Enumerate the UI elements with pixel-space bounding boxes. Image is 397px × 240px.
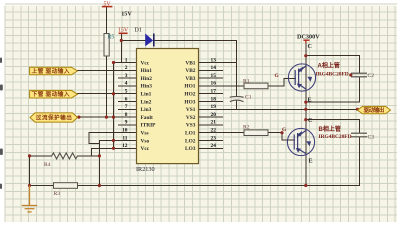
svg-text:D1: D1 <box>135 28 142 34</box>
svg-text:1: 1 <box>125 57 128 63</box>
svg-text:B相上管: B相上管 <box>319 125 341 133</box>
svg-text:23: 23 <box>211 135 217 141</box>
svg-text:IR2130: IR2130 <box>136 166 155 173</box>
svg-text:Vcc: Vcc <box>141 60 150 66</box>
svg-text:Lin1: Lin1 <box>141 92 152 98</box>
svg-text:9: 9 <box>125 120 128 126</box>
svg-text:Hin2: Hin2 <box>141 76 153 82</box>
svg-text:VS3: VS3 <box>186 123 196 129</box>
svg-text:16: 16 <box>211 81 217 87</box>
svg-text:19: 19 <box>211 104 217 110</box>
svg-text:Fault: Fault <box>141 115 153 121</box>
svg-text:驱动输出: 驱动输出 <box>364 106 385 114</box>
svg-text:VS2: VS2 <box>186 115 196 121</box>
svg-text:4: 4 <box>125 81 128 87</box>
svg-text:14: 14 <box>211 65 217 71</box>
svg-text:12: 12 <box>122 143 128 149</box>
svg-text:8: 8 <box>125 112 128 118</box>
svg-text:IRG4BC20FD: IRG4BC20FD <box>316 71 349 77</box>
svg-text:24: 24 <box>211 143 217 149</box>
svg-text:VB1: VB1 <box>185 60 195 66</box>
svg-text:LO1: LO1 <box>185 131 196 137</box>
svg-text:10: 10 <box>122 128 128 134</box>
svg-text:C3: C3 <box>368 135 375 141</box>
svg-text:E: E <box>309 159 313 165</box>
svg-text:2: 2 <box>125 65 128 71</box>
svg-text:LO3: LO3 <box>185 146 196 152</box>
svg-text:Lin2: Lin2 <box>141 99 152 105</box>
svg-text:VB2: VB2 <box>185 68 195 74</box>
svg-text:HO2: HO2 <box>184 92 195 98</box>
svg-text:Vso: Vso <box>141 138 150 144</box>
svg-text:ITRIP: ITRIP <box>141 123 157 129</box>
svg-text:15V: 15V <box>121 11 132 18</box>
svg-text:Hin1: Hin1 <box>141 68 153 74</box>
svg-text:5: 5 <box>125 89 128 95</box>
svg-text:18: 18 <box>211 96 217 102</box>
svg-text:C: C <box>308 118 312 124</box>
svg-text:17: 17 <box>211 89 217 95</box>
svg-text:20: 20 <box>211 112 217 118</box>
svg-text:6: 6 <box>125 96 128 102</box>
svg-text:C1: C1 <box>245 95 252 101</box>
svg-text:R3: R3 <box>54 191 61 197</box>
svg-text:IRG4BC20FD: IRG4BC20FD <box>319 134 352 140</box>
svg-text:上管 驱动输入: 上管 驱动输入 <box>32 67 70 75</box>
svg-text:Lin3: Lin3 <box>141 107 152 113</box>
svg-text:LO2: LO2 <box>185 138 196 144</box>
svg-text:7: 7 <box>125 104 128 110</box>
svg-text:Vss: Vss <box>141 131 149 137</box>
svg-text:VS1: VS1 <box>186 107 196 113</box>
svg-text:11: 11 <box>122 135 127 141</box>
svg-text:下管 驱动输入: 下管 驱动输入 <box>32 90 70 98</box>
svg-text:R5: R5 <box>108 34 115 40</box>
svg-text:Vcc: Vcc <box>141 146 150 152</box>
svg-text:HO3: HO3 <box>184 99 195 105</box>
svg-text:HO1: HO1 <box>184 84 195 90</box>
svg-text:13: 13 <box>211 57 217 63</box>
svg-text:C: C <box>308 44 312 50</box>
svg-text:R2: R2 <box>243 125 250 131</box>
svg-text:21: 21 <box>211 120 217 126</box>
svg-text:C2: C2 <box>368 73 375 79</box>
svg-text:15: 15 <box>211 73 217 79</box>
svg-text:R4: R4 <box>44 162 51 168</box>
svg-text:Hin3: Hin3 <box>141 84 153 90</box>
svg-text:3: 3 <box>125 73 128 79</box>
svg-text:R1: R1 <box>243 78 250 84</box>
svg-text:E: E <box>308 98 312 104</box>
svg-text:22: 22 <box>211 128 217 134</box>
svg-text:VB3: VB3 <box>185 76 195 82</box>
svg-text:A相上管: A相上管 <box>318 61 340 69</box>
svg-text:过流保护输出: 过流保护输出 <box>36 114 72 122</box>
